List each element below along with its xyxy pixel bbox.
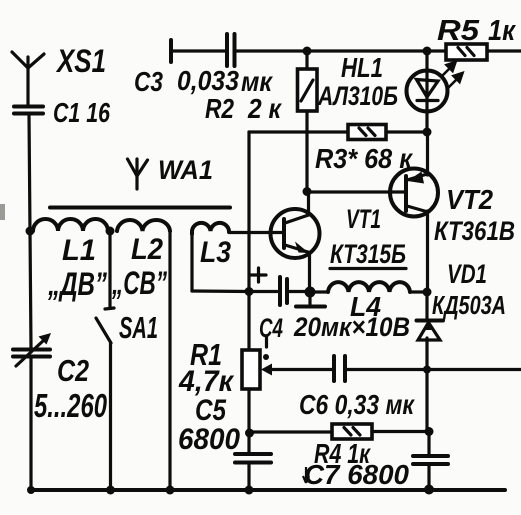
svg-text:2 к: 2 к <box>247 93 282 124</box>
svg-text:КД503А: КД503А <box>432 290 506 320</box>
svg-text:C7 6800: C7 6800 <box>304 459 409 490</box>
svg-text:XS1: XS1 <box>55 43 106 79</box>
svg-text:20мк×10В: 20мк×10В <box>293 312 410 342</box>
svg-text:VD1: VD1 <box>447 259 487 289</box>
svg-text:„ДВ”: „ДВ” <box>47 266 107 302</box>
svg-text:HL1: HL1 <box>341 52 383 83</box>
svg-text:5...260: 5...260 <box>34 387 107 424</box>
svg-text:КТ315Б: КТ315Б <box>330 239 406 269</box>
svg-text:R3* 68 к: R3* 68 к <box>315 143 414 174</box>
svg-text:„СВ”: „СВ” <box>111 265 167 301</box>
svg-text:C4: C4 <box>259 313 283 343</box>
svg-text:VT1: VT1 <box>346 204 381 234</box>
svg-text:1к: 1к <box>488 15 516 47</box>
svg-text:АЛ310Б: АЛ310Б <box>317 81 398 111</box>
svg-text:L1: L1 <box>62 234 96 267</box>
svg-text:0,033: 0,033 <box>177 65 239 96</box>
svg-text:R5: R5 <box>437 15 480 47</box>
svg-text:L3: L3 <box>200 236 231 269</box>
svg-text:C2: C2 <box>57 353 89 388</box>
svg-text:C1 16: C1 16 <box>53 97 110 128</box>
svg-text:C3: C3 <box>134 66 163 97</box>
svg-text:VT2: VT2 <box>446 184 493 215</box>
svg-text:R2: R2 <box>205 93 234 124</box>
svg-text:SA1: SA1 <box>119 310 158 345</box>
svg-text:WA1: WA1 <box>158 155 213 185</box>
svg-text:C6 0,33 мк: C6 0,33 мк <box>299 389 415 420</box>
svg-text:6800: 6800 <box>178 423 240 456</box>
svg-text:L2: L2 <box>131 233 163 266</box>
svg-text:КТ361В: КТ361В <box>434 216 515 246</box>
